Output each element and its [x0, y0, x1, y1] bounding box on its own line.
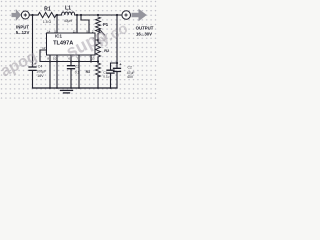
svg-text:10: 10 [53, 57, 57, 61]
svg-text:R3: R3 [86, 70, 90, 74]
svg-text:C2: C2 [128, 66, 132, 70]
ground symbol [61, 89, 73, 91]
svg-text:0.1: 0.1 [75, 71, 80, 75]
junction node dots [31, 14, 118, 89]
wire IC bottom pin x50 [49, 55, 51, 88]
svg-text:C3: C3 [75, 65, 79, 69]
svg-text:R1: R1 [44, 7, 51, 13]
wire output cap branch C2 vertical [116, 15, 118, 88]
wire L1 to output terminal [75, 14, 123, 16]
inductor L1 [62, 12, 75, 15]
wire feedback to IC [95, 38, 98, 42]
wire R2 to bus node [97, 57, 99, 63]
wire IC bottom pin x57 [56, 55, 58, 88]
svg-text:P1: P1 [103, 22, 109, 27]
P1 wiper arrowhead [98, 29, 100, 31]
op-amp / IC box U1 [47, 33, 96, 55]
svg-text:INPUT: INPUT [16, 25, 29, 30]
output arrow [132, 9, 147, 22]
svg-text:12: 12 [42, 46, 46, 50]
potentiometer P1 [96, 17, 101, 38]
svg-text:5...12V: 5...12V [16, 30, 30, 35]
svg-text:11: 11 [73, 29, 76, 33]
wire bus from IC left pin under IC [40, 50, 98, 62]
wire input cap branch C4 vertical [32, 15, 34, 88]
labels [16, 6, 154, 79]
watermark [0, 20, 131, 81]
input terminal [21, 11, 29, 19]
wire IC pin stub x57 [56, 15, 58, 33]
wire IC bottom pin x71 with C3 [70, 55, 72, 88]
svg-text:40V: 40V [127, 75, 134, 79]
wire C1 branch [111, 63, 118, 88]
svg-text:C4: C4 [38, 65, 43, 69]
resistor R3 [96, 63, 101, 77]
svg-text:R2: R2 [104, 48, 110, 53]
svg-text:L1: L1 [65, 6, 71, 12]
wire IC pin stub x77 [76, 15, 78, 33]
background [0, 0, 157, 100]
svg-text:16...30V: 16...30V [136, 31, 152, 36]
svg-text:40μH: 40μH [64, 19, 73, 23]
svg-text:IC1: IC1 [55, 34, 62, 39]
svg-text:16V: 16V [37, 74, 44, 78]
svg-text:1.5 Ω: 1.5 Ω [43, 20, 52, 24]
capacitor C1 plates [107, 70, 114, 73]
resistor R1 [38, 12, 56, 17]
pin numbers [42, 29, 95, 60]
capacitor C3 plates [68, 66, 75, 69]
resistor R2 [96, 42, 101, 57]
wire R1 to L1 [56, 14, 61, 16]
P1 wiper arrow [100, 30, 105, 35]
wire bottom ground rail [33, 87, 118, 89]
svg-text:OUTPUT: OUTPUT [136, 26, 154, 31]
svg-text:100μF: 100μF [36, 69, 46, 73]
input arrow [12, 9, 22, 21]
wire R3 to ground rail [97, 75, 99, 88]
wire IC bottom pin x79 [78, 55, 80, 88]
wire top rail left segment [29, 14, 38, 16]
capacitor C2 plates [114, 68, 121, 71]
svg-text:0.1μ: 0.1μ [103, 75, 109, 79]
capacitor C4 plates [29, 67, 36, 70]
output terminal [122, 11, 131, 20]
wire jog to IC pin x89 [81, 15, 89, 33]
svg-text:14: 14 [47, 30, 51, 34]
wire IC pin stub x91 to bus [90, 55, 92, 62]
svg-text:13: 13 [91, 57, 95, 61]
